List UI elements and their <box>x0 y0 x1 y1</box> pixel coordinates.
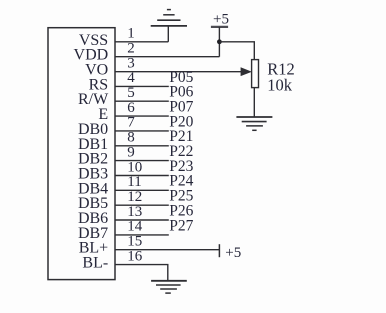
junction node dot <box>217 39 222 44</box>
pin 16 wire to ground <box>115 265 168 281</box>
svg-text:1: 1 <box>127 26 135 42</box>
ground (below R12) <box>236 117 272 130</box>
ground (bottom, pin 16) <box>151 281 187 293</box>
svg-text:P27: P27 <box>169 217 193 234</box>
pin 7 wire <box>115 130 169 132</box>
svg-text:8: 8 <box>127 130 135 146</box>
svg-text:10k: 10k <box>267 75 293 94</box>
+5 power bar <box>211 26 228 28</box>
svg-text:6: 6 <box>127 100 135 116</box>
svg-text:14: 14 <box>127 219 143 235</box>
svg-text:5: 5 <box>127 85 135 101</box>
svg-text:+5: +5 <box>225 245 241 261</box>
ground (top, inverted earth symbol) <box>151 10 187 42</box>
pin 9 wire <box>115 160 169 162</box>
svg-text:11: 11 <box>127 174 141 190</box>
svg-text:4: 4 <box>127 70 135 86</box>
pin 2 wire to +5 <box>115 56 219 58</box>
svg-text:16: 16 <box>127 248 143 264</box>
+5 terminal tick <box>218 244 220 257</box>
svg-text:15: 15 <box>127 234 142 250</box>
pin 5 wire <box>115 100 169 102</box>
svg-text:10: 10 <box>127 159 142 175</box>
svg-text:2: 2 <box>127 41 135 57</box>
svg-text:7: 7 <box>127 115 135 131</box>
svg-text:13: 13 <box>127 204 142 220</box>
pin 3 wire (VO) to potentiometer wiper arrow <box>115 71 243 73</box>
pin 14 wire <box>115 234 169 236</box>
pin 10 wire <box>115 175 169 177</box>
wire junction to R12 top <box>219 42 254 60</box>
svg-text:BL-: BL- <box>82 255 108 272</box>
svg-text:12: 12 <box>127 189 142 205</box>
pin 6 wire <box>115 115 169 117</box>
+5 stem wire down to pin 2 <box>218 27 220 57</box>
svg-text:3: 3 <box>127 55 135 71</box>
pin 11 wire <box>115 189 169 191</box>
potentiometer R12 body <box>252 60 259 88</box>
LCD module box U1 <box>48 28 115 280</box>
wire R12 bottom to ground <box>253 88 255 117</box>
pin 12 wire <box>115 204 169 206</box>
pin 1 wire to ground <box>115 41 168 43</box>
svg-text:+5: +5 <box>213 11 229 27</box>
pin 15 wire to +5 <box>115 249 219 251</box>
pin 4 wire <box>115 85 169 87</box>
pin 13 wire <box>115 219 169 221</box>
svg-text:9: 9 <box>127 144 135 160</box>
pin 8 wire <box>115 145 169 147</box>
